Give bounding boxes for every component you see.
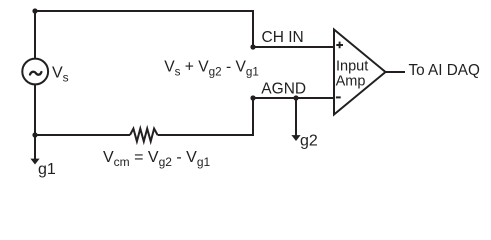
wire CH IN horizontal to op-amp + input	[253, 46, 334, 48]
node dot top-left	[32, 8, 37, 13]
svg-text:AGND: AGND	[261, 80, 306, 97]
op-amp - pin mark	[336, 96, 341, 98]
svg-text:To AI DAQ: To AI DAQ	[409, 62, 481, 79]
svg-text:Input: Input	[336, 59, 368, 75]
resistor	[130, 129, 158, 142]
node dot CH IN corner	[250, 44, 255, 49]
wire left vertical from source bottom to g1 node	[34, 84, 36, 135]
wire bottom horizontal right of resistor up to AGND node	[158, 98, 253, 135]
node dot g2 junction	[293, 95, 298, 100]
voltage source sine symbol	[30, 72, 41, 75]
node dot AGND left	[250, 95, 255, 100]
svg-text:Vs + Vg2 - Vg1: Vs + Vg2 - Vg1	[164, 59, 259, 79]
wire AGND horizontal to op-amp - input	[253, 97, 334, 99]
wire top horizontal from source node to CH IN corner	[35, 11, 253, 47]
svg-text:g1: g1	[38, 161, 56, 178]
wire bottom horizontal left of resistor	[35, 134, 130, 136]
svg-text:CH IN: CH IN	[262, 29, 304, 46]
wire op-amp output	[386, 71, 406, 73]
ground arrowhead g1	[30, 159, 39, 165]
svg-text:Amp: Amp	[336, 74, 366, 90]
op-amp + pin mark	[336, 42, 343, 49]
voltage source Vs circle	[22, 59, 48, 85]
ground arrowhead g2	[291, 135, 300, 141]
svg-text:Vcm = Vg2 - Vg1: Vcm = Vg2 - Vg1	[103, 149, 211, 169]
node dot g1 junction	[32, 132, 37, 137]
wire g1 arrow shaft	[34, 135, 36, 160]
svg-text:g2: g2	[300, 133, 318, 150]
wire g2 arrow shaft	[295, 98, 297, 136]
op-amp U1 triangle	[334, 30, 386, 115]
wire left vertical from top node to source top	[34, 11, 36, 59]
svg-text:Vs: Vs	[52, 65, 69, 85]
